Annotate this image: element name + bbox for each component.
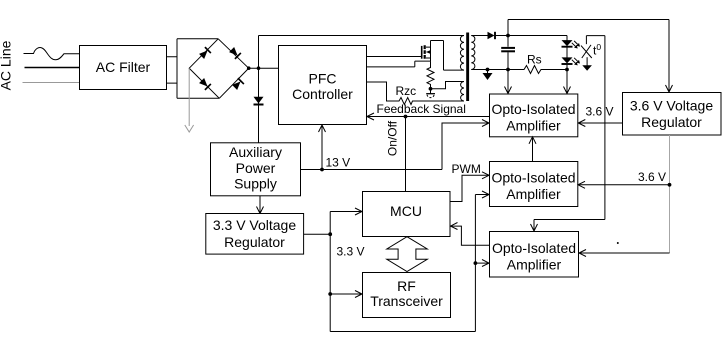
node junction DC bus: [257, 66, 261, 70]
wire AC line PE (gray): [23, 82, 80, 84]
wire DC bus vertical to aux supply: [258, 36, 260, 143]
wire 3.3V to opto2 with arrow: [475, 191, 489, 198]
svg-text:Feedback Signal: Feedback Signal: [377, 102, 466, 116]
arrow MCU-RF double hollow arrow: [387, 237, 428, 272]
svg-text:3.6 V: 3.6 V: [638, 170, 666, 184]
LED chain: [562, 36, 573, 70]
svg-text:Auxiliary: Auxiliary: [229, 144, 282, 160]
svg-text:Amplifier: Amplifier: [506, 118, 561, 134]
wire drain to primary bottom: [444, 41, 465, 71]
resistor Rzc wire from PFC: [367, 82, 465, 105]
node junction gnd a: [486, 68, 490, 72]
wire bridge to PFC: [249, 67, 279, 69]
transistor Q1 MOSFET: [367, 41, 444, 67]
ground under bridge (gray): [185, 68, 194, 132]
wire aux to 3.3V regulator with arrow: [257, 196, 264, 214]
block Opto-Isolated Amplifier 3: [490, 232, 579, 278]
block Opto-Isolated Amplifier 2: [490, 162, 578, 207]
node junction 3.3V a: [328, 232, 332, 236]
svg-text:Regulator: Regulator: [224, 234, 285, 250]
block RF Transceiver: [363, 273, 451, 318]
wire 3.3V to opto3 with arrow: [475, 260, 489, 267]
wire secondary plus rail: [508, 35, 567, 37]
node junction feedback/on-off: [404, 115, 408, 119]
svg-text:Rzc: Rzc: [396, 84, 417, 98]
wire PFC gate drive: [367, 56, 422, 58]
node junction 3.6V: [668, 183, 672, 187]
block Opto-Isolated Amplifier 1: [490, 94, 578, 137]
wire 3.6V to opto3 with arrow: [579, 250, 670, 257]
wire PWM MCU to opto2: [450, 172, 489, 202]
wire top DC rail: [259, 35, 465, 37]
svg-text:Opto-Isolated: Opto-Isolated: [492, 240, 576, 256]
transformer T1 auxiliary winding: [461, 82, 464, 102]
svg-text:3.6 V: 3.6 V: [586, 105, 614, 119]
wire AC line N: [25, 67, 80, 69]
svg-text:AC Line: AC Line: [0, 40, 14, 90]
node junction sense/aux: [429, 87, 433, 91]
node junction bridge output: [247, 66, 251, 70]
wire 3.6V to opto2 with arrow: [578, 181, 670, 188]
diode D2 (bridge top-right, pointing SE): [229, 47, 241, 59]
svg-text:MCU: MCU: [390, 203, 422, 219]
svg-text:PFC: PFC: [309, 71, 337, 87]
LED1 emission arrows: [572, 41, 580, 49]
wire feedback signal with arrow into PFC: [367, 113, 490, 120]
wire secondary ground rail with resistor Rs: [471, 66, 567, 74]
svg-text:13 V: 13 V: [326, 156, 351, 170]
wire cap node down to opto1 with arrow: [505, 70, 512, 94]
LED2 emission arrows: [572, 58, 580, 66]
svg-text:3.3 V Voltage: 3.3 V Voltage: [213, 217, 297, 233]
svg-text:Amplifier: Amplifier: [506, 186, 561, 202]
wire 3.3V net: [304, 195, 476, 332]
svg-text:Transceiver: Transceiver: [370, 293, 443, 309]
block AC Filter: [80, 46, 167, 90]
wire 3.6V regulator to opto1 with arrow: [578, 120, 622, 127]
svg-text:Amplifier: Amplifier: [507, 257, 562, 273]
node junction 3.3V c: [474, 261, 478, 265]
diode D1 (bridge top-left, pointing NE): [199, 47, 211, 59]
svg-text:Opto-Isolated: Opto-Isolated: [491, 170, 575, 186]
wire 13V to opto1 with arrow: [442, 120, 489, 170]
transformer T1 primary winding: [460, 36, 464, 71]
wire opto2 to opto1 with arrow: [529, 137, 536, 162]
wire 3.3V to MCU with arrow: [330, 208, 362, 215]
node junction 3.3V b: [328, 292, 332, 296]
block 3.6 V Voltage Regulator: [623, 93, 722, 136]
svg-text:PWM: PWM: [452, 162, 481, 176]
ground arrow secondary: [483, 70, 493, 81]
diode D5 (to auxiliary supply): [254, 97, 264, 105]
wire On/Off MCU to feedback: [405, 117, 407, 192]
node junction gnd b: [506, 68, 510, 72]
diode D6 secondary rectifier: [471, 32, 508, 39]
block 3.3 V Voltage Regulator: [206, 214, 304, 255]
node junction led bottom: [565, 68, 569, 72]
wire top loop to 3.6V regulator with arrow: [508, 20, 673, 93]
wire 3.3V to RF with arrow: [330, 291, 362, 298]
svg-text:3.6 V Voltage: 3.6 V Voltage: [630, 98, 714, 114]
diode D4 (bridge bottom-right, pointing NE): [232, 78, 244, 90]
wire AC line L (sine squiggle): [24, 48, 80, 60]
wire led node down to opto1 with arrow: [564, 70, 571, 94]
ground earth symbol: [426, 89, 435, 98]
svg-text:Rs: Rs: [527, 53, 542, 67]
block MCU: [363, 192, 451, 237]
svg-text:RF: RF: [397, 278, 416, 294]
transformer T1 secondary winding: [471, 36, 475, 70]
transformer T1 core: [466, 33, 469, 102]
node small speck: [617, 242, 619, 244]
svg-text:AC Filter: AC Filter: [96, 59, 151, 75]
bridge rectifier diamond: [189, 39, 249, 99]
svg-text:Opto-Isolated: Opto-Isolated: [491, 101, 575, 117]
diode D3 (bridge bottom-left, pointing SE): [199, 78, 211, 90]
svg-text:Controller: Controller: [292, 86, 353, 102]
node junction 13V: [320, 168, 324, 172]
wire t0 sense down to opto3 with arrow: [531, 36, 605, 232]
svg-text:On/Off: On/Off: [386, 120, 400, 156]
svg-text:Power: Power: [236, 160, 276, 176]
block Auxiliary Power Supply: [211, 143, 301, 196]
svg-text:Supply: Supply: [234, 176, 277, 192]
capacitor C1: [501, 36, 515, 70]
wire 13V rail: [301, 169, 443, 171]
wire 13V up to PFC with arrow: [319, 125, 326, 170]
wire 3.6V regulator bottom (gray): [669, 135, 671, 253]
resistor sense (vertical, below Q1): [427, 61, 434, 89]
wire filter to bridge top: [167, 39, 220, 99]
wire sense node to aux winding top: [431, 82, 465, 89]
block PFC Controller: [279, 46, 367, 125]
wire opto3 to MCU with arrow: [451, 223, 490, 246]
svg-text:3.3 V: 3.3 V: [337, 245, 365, 259]
svg-text:Regulator: Regulator: [641, 114, 702, 130]
node junction diode out: [506, 34, 510, 38]
thermal switch t0: [581, 36, 605, 71]
